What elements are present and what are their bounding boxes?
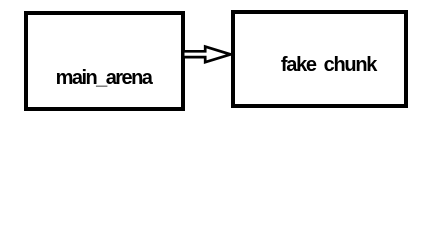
label main_arena bbox=[23, 68, 184, 88]
arrow from main_arena to fake chunk bbox=[0, 0, 424, 122]
label fake chunk bbox=[248, 55, 409, 75]
box main_arena bbox=[24, 11, 185, 111]
box fake chunk bbox=[231, 10, 408, 108]
